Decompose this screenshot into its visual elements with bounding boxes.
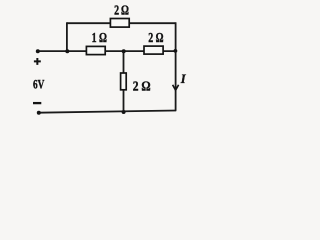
label: minus sign xyxy=(33,102,41,104)
resistor 1ohm xyxy=(86,46,105,54)
svg-text:6V: 6V xyxy=(33,78,45,92)
wire: bottom horizontal xyxy=(39,111,177,113)
node: junction middle vertical top xyxy=(122,49,126,53)
wire: right vertical (with current I) xyxy=(175,22,177,111)
svg-text:2 Ω: 2 Ω xyxy=(133,80,151,95)
resistor 2ohm vertical xyxy=(121,73,127,90)
resistor 2ohm middle xyxy=(144,46,163,54)
label: plus sign xyxy=(34,58,41,65)
node: junction top-left branch xyxy=(65,49,69,53)
node: - terminal dot xyxy=(37,111,41,115)
resistor 2ohm top xyxy=(110,19,129,28)
svg-text:1 Ω: 1 Ω xyxy=(92,30,108,45)
wire: middle vertical xyxy=(123,51,125,112)
svg-text:2 Ω: 2 Ω xyxy=(148,30,164,45)
node: junction middle vertical bottom xyxy=(122,110,126,114)
node: junction right xyxy=(174,49,178,53)
wire: top branch left vertical xyxy=(66,22,68,51)
wire: middle horizontal xyxy=(38,50,176,52)
node: + terminal dot xyxy=(36,49,40,53)
current arrow head xyxy=(173,85,179,90)
wire: top branch horizontal xyxy=(67,22,176,24)
svg-text:I: I xyxy=(180,72,187,86)
svg-text:2 Ω: 2 Ω xyxy=(114,3,129,18)
